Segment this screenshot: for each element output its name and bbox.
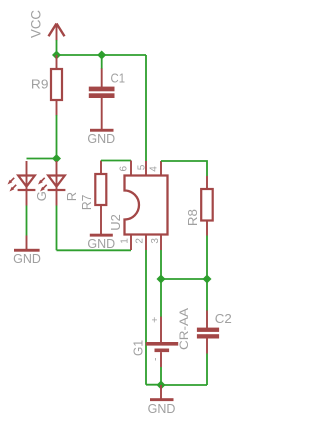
wire top horizontal — [57, 54, 147, 56]
svg-text:GND: GND — [13, 252, 41, 266]
ground under R7 — [87, 220, 115, 251]
wire pin 4 to R8 — [161, 161, 207, 176]
svg-text:R: R — [64, 192, 79, 201]
wire pin 2 down to bottom — [146, 250, 161, 385]
resistor R8 — [185, 176, 213, 236]
battery G1 — [131, 279, 192, 367]
capacitor C2 — [197, 279, 232, 354]
wire down to pin 5 — [145, 55, 147, 161]
pin 4 — [160, 161, 162, 176]
wire R9 to LED junction — [56, 115, 58, 159]
svg-text:G1: G1 — [131, 340, 146, 356]
svg-text:U2: U2 — [108, 214, 123, 231]
svg-text:2: 2 — [135, 238, 146, 244]
ground under LED G — [13, 236, 41, 266]
wire battery to bottom junction — [160, 367, 162, 385]
capacitor C1 — [89, 55, 125, 115]
svg-text:1: 1 — [119, 238, 130, 244]
svg-text:GND: GND — [148, 402, 176, 416]
resistor R7 — [79, 161, 106, 221]
svg-text:G: G — [34, 191, 49, 201]
wire LED row — [27, 158, 57, 160]
LED G (left) — [8, 161, 50, 206]
wire R8 to mid row — [206, 236, 208, 280]
svg-text:5: 5 — [137, 164, 148, 170]
svg-text:GND: GND — [87, 132, 115, 146]
supply VCC — [29, 10, 65, 41]
wire pin 3 down — [160, 250, 162, 279]
junction top at R9 — [52, 51, 61, 60]
svg-text:+: + — [149, 317, 161, 323]
svg-text:VCC: VCC — [29, 10, 44, 38]
svg-text:C1: C1 — [111, 71, 126, 86]
junction bottom — [157, 381, 166, 390]
junction mid right — [203, 275, 212, 284]
junction mid left — [157, 275, 166, 284]
svg-text:3: 3 — [150, 238, 161, 244]
IC U2 — [108, 176, 168, 235]
ground under C1 — [87, 115, 115, 146]
pin 1 — [130, 235, 132, 251]
pin 6 — [130, 161, 132, 176]
LED R (right) — [38, 161, 79, 206]
wire R7 to pin 6 — [101, 160, 131, 162]
svg-text:-: - — [150, 357, 162, 361]
junction top at C1 — [97, 51, 106, 60]
wire C2 to bottom row — [206, 354, 208, 386]
svg-text:R7: R7 — [79, 195, 94, 211]
ground bottom — [148, 385, 176, 416]
svg-text:R9: R9 — [31, 77, 49, 92]
svg-text:GND: GND — [87, 237, 115, 251]
wire VCC to junction — [56, 40, 58, 55]
wire bottom row — [161, 384, 207, 386]
wire LED R to pin 1 — [57, 206, 132, 251]
svg-text:CR-AA: CR-AA — [177, 308, 191, 350]
svg-text:6: 6 — [119, 165, 130, 171]
wire mid row — [161, 278, 207, 280]
pin 5 — [145, 161, 147, 176]
svg-text:C2: C2 — [215, 311, 232, 326]
svg-text:4: 4 — [149, 166, 160, 172]
resistor R9 — [31, 55, 62, 116]
pin 2 — [145, 235, 147, 251]
pin 3 — [160, 235, 162, 251]
wire LED G to ground — [26, 206, 28, 236]
junction LED row — [52, 154, 61, 163]
svg-text:R8: R8 — [185, 209, 200, 226]
